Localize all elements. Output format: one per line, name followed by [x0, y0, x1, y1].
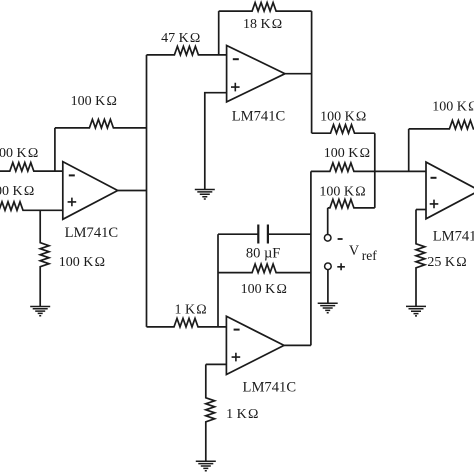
svg-text:LM741C: LM741C — [243, 379, 297, 395]
resistor R9 100K (summing from Vref) — [328, 199, 375, 208]
svg-text:100 KΩ: 100 KΩ — [241, 282, 287, 297]
resistor R12 1K (to U3 inverting input) — [147, 318, 227, 327]
svg-text:LM741C: LM741C — [232, 108, 286, 124]
svg-text:1 KΩ: 1 KΩ — [226, 407, 258, 422]
wire U1 feedback vertical — [54, 128, 56, 171]
wire U4 feedback vertical — [408, 129, 410, 172]
minus mark at Vref terminal — [338, 238, 343, 240]
op-amp U1 triangle — [63, 162, 118, 220]
U3 minus sign — [234, 329, 240, 331]
svg-text:100 KΩ: 100 KΩ — [59, 255, 105, 270]
svg-text:100 KΩ: 100 KΩ — [319, 185, 365, 200]
svg-text:ref: ref — [362, 248, 377, 263]
U2 plus sign — [231, 83, 240, 92]
U4 plus sign — [430, 200, 439, 209]
resistor R7 100K (summing from U2 output) — [312, 125, 375, 134]
U2 minus sign — [233, 58, 239, 60]
svg-text:80 µF: 80 µF — [246, 246, 281, 262]
wire U3 non-inverting input — [206, 363, 227, 365]
svg-text:100 KΩ: 100 KΩ — [432, 100, 474, 115]
resistor R13 100K (U3 feedback) — [218, 264, 311, 273]
ground G3 (Vref) — [318, 303, 338, 313]
U1 plus sign — [68, 198, 77, 207]
U1 minus sign — [69, 174, 75, 176]
svg-text:1 KΩ: 1 KΩ — [174, 303, 206, 318]
resistor R4 100K (U1 + input to ground) — [40, 210, 49, 306]
svg-text:100 KΩ: 100 KΩ — [320, 109, 366, 124]
U4 minus sign — [431, 177, 437, 179]
ground G5 (below R11) — [406, 306, 426, 316]
resistor R6 18K (U2 feedback) — [219, 3, 312, 12]
wire node bus (U1 output vertical rail) — [146, 55, 148, 327]
svg-text:LM741C: LM741C — [65, 225, 119, 241]
svg-text:100 KΩ: 100 KΩ — [0, 146, 38, 161]
wire node bus (U2 output vertical rail) — [311, 11, 313, 133]
resistor R8 100K (summing from U3 output) and wire to U4 inverting input — [311, 163, 426, 172]
terminal Vref plus — [325, 263, 332, 270]
capacitor C1 80uF left wire — [218, 233, 258, 235]
resistor R14 1K (U3 + input to ground) — [206, 364, 215, 461]
resistor R11 25K (U4 + input to ground) — [416, 210, 425, 307]
resistor R5 47K (to U2 inverting input) — [147, 46, 227, 55]
svg-text:47 KΩ: 47 KΩ — [161, 31, 200, 46]
svg-text:100 KΩ: 100 KΩ — [71, 94, 117, 109]
op-amp U2 triangle — [227, 46, 285, 102]
wire U3 feedback left vertical — [217, 234, 219, 327]
svg-text:LM741C: LM741C — [433, 229, 474, 245]
wire U2 feedback vertical — [218, 11, 220, 55]
ground G2 (U2 + input) — [195, 190, 215, 200]
capacitor C1 right wire — [268, 233, 311, 235]
svg-text:25 KΩ: 25 KΩ — [427, 255, 466, 270]
wire U2 output — [285, 73, 312, 75]
wire U1 output — [118, 190, 147, 192]
wire summing node vertical — [374, 133, 376, 208]
wire Vref plus terminal to ground — [327, 270, 329, 304]
capacitor C1 plates — [258, 225, 268, 244]
U3 plus sign — [232, 353, 241, 362]
terminal Vref minus — [324, 235, 331, 242]
resistor R10 100K (U4 feedback, clipped at right edge) — [409, 120, 474, 129]
resistor R2 100K (U1 non-inverting input, clipped at left edge) — [0, 202, 63, 211]
wire node bus (U3 output vertical rail) — [310, 171, 312, 345]
svg-text:100 KΩ: 100 KΩ — [324, 146, 370, 161]
plus mark at Vref terminal — [337, 263, 345, 270]
svg-text:100 KΩ: 100 KΩ — [0, 184, 34, 199]
op-amp U4 triangle (clipped at right edge) — [426, 162, 474, 219]
op-amp U3 triangle — [226, 316, 284, 374]
ground G4 (below R14) — [196, 461, 216, 471]
wire U4 non-inverting input — [416, 209, 426, 211]
wire R9 to Vref minus terminal — [327, 208, 329, 235]
svg-text:V: V — [349, 243, 360, 259]
resistor R1 100K (U1 inverting input, clipped at left edge) — [0, 163, 63, 172]
resistor R3 100K (U1 feedback) — [55, 119, 147, 128]
wire U3 output — [284, 344, 311, 346]
ground G1 (below R4) — [30, 307, 50, 316]
wire U2 non-inverting input to ground — [205, 93, 227, 190]
svg-text:18 KΩ: 18 KΩ — [243, 17, 282, 32]
